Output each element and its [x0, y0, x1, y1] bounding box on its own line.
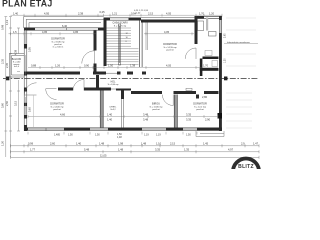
window bottom mid-right [142, 128, 166, 131]
svg-text:4,38: 4,38 [14, 49, 18, 55]
left rotated dim text [1, 19, 18, 146]
bathroom wall V8 [195, 18, 198, 45]
closet thin lines top-right room [146, 23, 148, 51]
svg-text:PLAN ETAJ: PLAN ETAJ [2, 0, 52, 9]
dim row 1 [11, 144, 260, 147]
right side faint annotation lines [226, 18, 256, 128]
svg-text:2,65: 2,65 [225, 33, 227, 38]
room label dressing [110, 107, 117, 112]
svg-text:hidroizolatie membrana: hidroizolatie membrana [227, 41, 251, 44]
svg-text:4,66: 4,66 [60, 113, 66, 117]
svg-text:1,47: 1,47 [253, 142, 259, 146]
svg-text:1,20: 1,20 [1, 140, 5, 146]
svg-text:1,35: 1,35 [184, 148, 190, 152]
stub S1 [96, 75, 99, 88]
svg-text:0,88: 0,88 [31, 64, 37, 68]
stair step numbers [126, 33, 129, 43]
svg-text:4,05: 4,05 [166, 64, 172, 68]
door arc top-left room [82, 51, 95, 64]
top wall left: corner pier [24, 28, 35, 31]
svg-text:1,50: 1,50 [95, 133, 100, 136]
svg-text:1,50: 1,50 [186, 133, 191, 136]
svg-text:1,40: 1,40 [107, 113, 113, 117]
room label bottom-left DORMITOR [50, 103, 64, 112]
stair arrow [119, 26, 121, 63]
svg-text:1,21: 1,21 [112, 11, 118, 15]
svg-text:1,70: 1,70 [199, 11, 205, 15]
wall A door arc (bottom-left room) [24, 83, 36, 95]
svg-text:1,40: 1,40 [13, 11, 19, 15]
svg-text:1,26: 1,26 [55, 64, 61, 68]
svg-text:3,48: 3,48 [143, 113, 149, 117]
svg-text:S = 8,40 mp: S = 8,40 mp [108, 84, 120, 86]
window in stair wall [110, 18, 129, 21]
interior rotated dims left rooms [29, 47, 32, 112]
svg-text:3,95: 3,95 [29, 47, 32, 52]
thin furniture line bottom-left room [33, 95, 35, 127]
svg-text:0,25: 0,25 [100, 10, 106, 14]
interior dim line bottom rooms y116.5 [28, 115, 218, 118]
svg-text:0,99: 0,99 [28, 142, 34, 146]
svg-text:1,70: 1,70 [203, 64, 209, 68]
svg-text:1,485: 1,485 [54, 133, 61, 136]
bottom wall [24, 128, 222, 131]
svg-text:4,05: 4,05 [166, 11, 172, 15]
left dimension chain [4, 17, 20, 157]
svg-text:2,80: 2,80 [202, 95, 208, 99]
bottom-right exterior step outline [196, 131, 224, 137]
top wall stair block [104, 18, 111, 21]
svg-text:1,98: 1,98 [118, 142, 124, 146]
svg-text:S = 10,25 mp: S = 10,25 mp [114, 25, 127, 27]
top wall right segment [141, 20, 196, 23]
svg-text:1,48: 1,48 [118, 148, 124, 152]
svg-text:1,38: 1,38 [130, 64, 136, 68]
interior wall V6 [174, 95, 177, 128]
section line A-A [3, 78, 259, 80]
svg-text:1,40: 1,40 [107, 117, 113, 121]
logo BLITZ [233, 159, 259, 185]
svg-text:3,60: 3,60 [29, 107, 32, 112]
svg-text:1,77: 1,77 [30, 148, 36, 152]
svg-text:HOL: HOL [111, 82, 116, 84]
svg-text:1,20: 1,20 [225, 58, 227, 63]
room label top-right DORMITOR [163, 43, 177, 52]
svg-text:parchet: parchet [54, 43, 62, 46]
svg-text:1,48: 1,48 [99, 142, 105, 146]
svg-text:S = 14,60 mp: S = 14,60 mp [50, 106, 64, 108]
eaves line above right wall [141, 16, 196, 18]
svg-text:3,48: 3,48 [143, 117, 149, 121]
hall label [108, 82, 120, 87]
svg-text:parchet: parchet [53, 108, 61, 111]
svg-text:3,35: 3,35 [186, 117, 192, 121]
right wall small rotated dims [225, 33, 227, 63]
svg-text:5,48: 5,48 [84, 148, 90, 152]
svg-text:BLITZ: BLITZ [238, 164, 254, 169]
window bottom right [183, 128, 197, 131]
window bottom mid-left [90, 128, 108, 131]
svg-text:BIROU: BIROU [152, 103, 160, 106]
svg-text:S = 11,80 mp: S = 11,80 mp [150, 106, 164, 108]
door arc bottom-middle room [162, 95, 173, 106]
stair treads [107, 28, 139, 64]
window bottom-left [28, 128, 64, 131]
wall junction marker right [218, 113, 223, 119]
room label bottom-middle [150, 103, 164, 112]
svg-text:S = 14,55 mp: S = 14,55 mp [163, 47, 177, 49]
svg-text:2,90: 2,90 [205, 118, 211, 122]
svg-text:2,60: 2,60 [50, 142, 56, 146]
bottom window dim numbers [54, 133, 191, 139]
stub right [196, 95, 199, 99]
svg-text:DORMITOR: DORMITOR [50, 103, 64, 106]
svg-text:1,45: 1,45 [203, 142, 209, 146]
ensuite fixtures [205, 51, 218, 67]
svg-text:1,50: 1,50 [117, 133, 122, 136]
corridor bottom wall B right [131, 91, 162, 94]
corridor dim numbers [31, 64, 209, 68]
svg-text:1,19: 1,19 [156, 133, 161, 136]
right wall [219, 16, 222, 131]
left wall piers [24, 44, 27, 49]
svg-text:S = 15,80 mp: S = 15,80 mp [51, 41, 65, 43]
corridor dimension chain y67.5 [28, 66, 218, 69]
annotation right darker [224, 43, 258, 45]
interior dim top-right room [144, 32, 194, 35]
svg-text:1,13: 1,13 [5, 19, 9, 25]
svg-text:DORMITOR: DORMITOR [163, 43, 177, 46]
svg-text:1,20: 1,20 [209, 11, 215, 15]
svg-text:1,48: 1,48 [117, 136, 122, 139]
svg-text:6,40: 6,40 [62, 24, 68, 28]
section markers [6, 77, 9, 81]
hall door arc 3 (wall A x80-93) [73, 80, 84, 91]
left wall: thin frame [24, 28, 27, 131]
svg-text:1,5: 1,5 [13, 30, 17, 34]
svg-text:4,95: 4,95 [44, 11, 50, 15]
left balcony [10, 54, 25, 78]
svg-text:2,35: 2,35 [5, 62, 9, 68]
svg-text:3,35: 3,35 [155, 148, 161, 152]
svg-text:2,15: 2,15 [148, 11, 154, 15]
dim row 2 [11, 150, 260, 153]
svg-text:1,19: 1,19 [144, 133, 149, 136]
stacked dim cluster above stair block [134, 10, 149, 14]
svg-text:0,94: 0,94 [131, 11, 137, 15]
svg-text:3,60: 3,60 [1, 102, 5, 108]
bathroom fixtures [198, 21, 217, 36]
interior wall V5 [100, 91, 103, 128]
ensuite walls [203, 57, 219, 60]
top wall bathroom segment [195, 16, 205, 19]
svg-text:1,48: 1,48 [141, 142, 147, 146]
top wall left: window band [35, 28, 98, 31]
svg-text:1,50: 1,50 [68, 133, 73, 136]
svg-text:h = 2,55 m: h = 2,55 m [53, 47, 64, 49]
svg-text:parchet: parchet [166, 49, 174, 52]
corridor bottom wall B left [58, 88, 73, 91]
svg-text:1,40: 1,40 [76, 142, 82, 146]
svg-text:2,50: 2,50 [5, 100, 9, 106]
radiator mark [186, 88, 192, 90]
left wall glazing lines [25, 31, 27, 115]
interior wall V1 [94, 31, 97, 51]
svg-text:parchet: parchet [152, 108, 160, 111]
svg-text:DORMITOR: DORMITOR [51, 38, 65, 41]
hall door arc 2 [46, 89, 57, 100]
svg-text:4,95: 4,95 [42, 30, 48, 34]
stair center rail [119, 24, 121, 65]
stair left wall V2 [104, 21, 107, 67]
top dimension chain [11, 14, 223, 17]
room label top-left DORMITOR [51, 38, 65, 49]
svg-text:h=1,0: h=1,0 [14, 66, 20, 68]
svg-text:DORMITOR: DORMITOR [193, 103, 207, 106]
bathroom door arc [185, 48, 196, 59]
svg-text:3,35: 3,35 [186, 113, 192, 117]
svg-text:4,05: 4,05 [164, 30, 170, 34]
top wall left: right pier [98, 28, 104, 31]
balcony label [12, 58, 22, 68]
svg-text:0,98: 0,98 [1, 24, 5, 30]
svg-text:2,9: 2,9 [241, 142, 245, 146]
svg-text:11,05: 11,05 [100, 154, 107, 158]
room label bottom-right [193, 103, 207, 112]
svg-text:1,50: 1,50 [108, 64, 114, 68]
svg-text:4,95: 4,95 [73, 30, 79, 34]
interior dim line top-left room y33.8 [9, 32, 97, 35]
svg-text:S=3,2: S=3,2 [110, 109, 116, 111]
window in right wall (bathroom) [219, 20, 222, 33]
stair right wall V3 (double line) [139, 21, 142, 68]
svg-text:2,35: 2,35 [1, 58, 5, 64]
svg-text:CASA SCARII: CASA SCARII [112, 22, 127, 25]
svg-text:2,38: 2,38 [78, 11, 84, 15]
svg-text:2,15: 2,15 [170, 142, 176, 146]
svg-text:parchet: parchet [196, 108, 204, 111]
svg-text:3,15: 3,15 [14, 100, 18, 106]
svg-text:S = 12,2 mp: S = 12,2 mp [194, 106, 207, 108]
room label CASA SCARII [112, 22, 127, 28]
svg-text:4,97: 4,97 [228, 148, 234, 152]
middle wall A segments [27, 72, 80, 75]
svg-text:0,90: 0,90 [84, 64, 90, 68]
interior wall stub V7 [121, 89, 124, 100]
svg-text:1,10: 1,10 [156, 142, 162, 146]
dim row 3 total [11, 156, 260, 159]
terrace top-left railing [24, 17, 104, 28]
